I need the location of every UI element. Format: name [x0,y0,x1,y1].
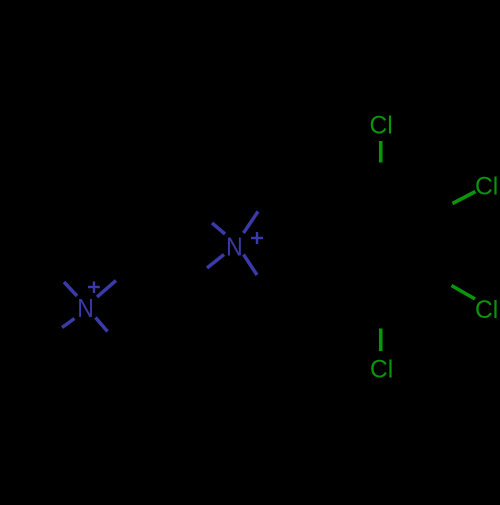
wire N1 methyl stub down-left [62,319,75,328]
svg-text:Cl: Cl [475,297,498,324]
wire N1 methyl stub up-left [64,282,77,296]
svg-text:N: N [77,295,94,323]
wire Cl bottom stub [379,329,383,352]
wire N2 ring stub down-right [244,255,258,276]
node N1 plus charge [88,281,100,293]
node N2 plus charge [251,232,263,244]
svg-text:N: N [226,233,243,261]
wire Cl upper-right stub [453,192,476,204]
wire Cl lower-right stub [452,286,476,300]
wire Cl top stub [379,141,383,163]
wire N2 methyl stub up-left [212,223,225,234]
svg-text:Cl: Cl [475,174,498,201]
wire N2 chain stub down-left [207,255,224,269]
svg-text:Cl: Cl [370,357,393,384]
svg-text:Cl: Cl [370,112,393,139]
node N1 (trimethylammonium nitrogen) label [77,295,94,323]
wire N1 methyl stub down-right [96,318,108,332]
node N2 (isoindolinium nitrogen) label [226,233,243,261]
wire N2 ring stub up-right [244,212,259,234]
wire N1 chain stub up-right [97,281,116,298]
